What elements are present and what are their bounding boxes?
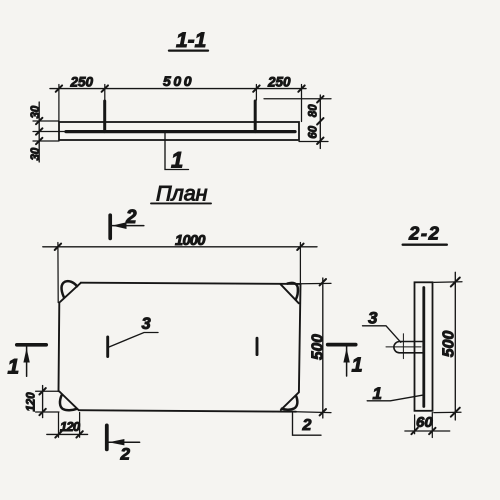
section mark 2 (bottom) [107, 425, 140, 463]
tick [36, 138, 42, 144]
horizontal dim 120 (bottom-left) [58, 413, 60, 437]
extension right to 500 dim (bottom) [296, 411, 331, 414]
chamfer top-right [281, 284, 299, 303]
tick [253, 85, 259, 91]
svg-text:1000: 1000 [175, 233, 205, 249]
extension lines [58, 85, 60, 122]
dimension line 500 (section 2-2) [454, 272, 456, 420]
anchor bar left (section 1-1) [103, 101, 106, 132]
steel strip 1 (section 1-1) [66, 130, 295, 133]
extension lines up from plan [57, 243, 59, 303]
svg-text:2: 2 [120, 445, 131, 464]
leader to strip 1 [165, 133, 189, 170]
svg-text:1-1: 1-1 [176, 29, 206, 52]
plan top edge [81, 283, 301, 284]
extension top [434, 281, 462, 284]
svg-text:3: 3 [142, 315, 151, 333]
left vertical dim line 30/30 [38, 102, 40, 162]
anchor bar right (section 1-1) [254, 101, 257, 132]
chamfer bottom-right [281, 392, 299, 410]
svg-text:1: 1 [373, 384, 382, 403]
extension bottom [434, 411, 461, 413]
tick [429, 428, 435, 434]
plan right edge [299, 284, 301, 392]
svg-text:1: 1 [171, 148, 183, 173]
tick [297, 244, 303, 250]
tick [56, 85, 62, 91]
leader to strip 1 (2-2) [367, 395, 422, 401]
svg-text:30: 30 [30, 147, 42, 160]
dimension 60 (section 2-2) [414, 415, 416, 434]
chamfer bottom-left [59, 392, 78, 411]
section mark 1 (right) [328, 345, 363, 377]
svg-text:2: 2 [125, 207, 137, 228]
lifting loop bottom-right [282, 396, 298, 410]
tick [320, 279, 326, 285]
tick [317, 96, 323, 102]
lifting loop top-right [288, 283, 298, 300]
svg-text:1: 1 [8, 356, 20, 379]
plate outline (section 2-2) [415, 282, 433, 411]
leader to anchor 3 (2-2) [363, 326, 401, 343]
tick [317, 138, 323, 144]
section title 1-1 [169, 29, 208, 52]
tick [55, 431, 61, 437]
extension right to 500 dim [301, 282, 332, 284]
tick [102, 85, 108, 91]
section trace 2 (bottom-right) [293, 413, 322, 435]
tick [55, 244, 61, 250]
chamfer top-left [60, 283, 81, 302]
svg-text:1: 1 [352, 355, 363, 377]
tick [320, 409, 326, 415]
lifting loop top-left [62, 281, 77, 297]
section mark 1 (left) [8, 345, 47, 379]
centerline horizontal [386, 346, 421, 348]
svg-text:500: 500 [440, 331, 457, 358]
plate outline (section 1-1) [59, 122, 299, 140]
svg-text:120: 120 [26, 392, 38, 412]
right vertical dim line 80/60 [319, 95, 321, 149]
plan bottom edge [79, 410, 296, 412]
svg-text:3: 3 [368, 309, 378, 328]
svg-text:250: 250 [267, 75, 291, 90]
vertical dim 120 (bottom-left) [36, 390, 59, 392]
centerline vertical [402, 334, 404, 359]
tick [39, 409, 45, 415]
plan title [151, 181, 211, 205]
dimension line 500 (plan right) [322, 278, 324, 418]
extension to plate bottom [299, 141, 328, 143]
anchor right (plan) [256, 338, 259, 354]
anchor stub 3 (section 2-2) [394, 342, 424, 353]
anchor 3 left (plan) [106, 337, 109, 357]
section mark 2 (top) [110, 207, 144, 238]
tick [411, 428, 417, 434]
steel strip 1 (section 2-2) [422, 288, 425, 407]
dimension line 1000 (plan) [43, 246, 317, 248]
tick [317, 118, 323, 124]
svg-text:80: 80 [307, 104, 319, 117]
svg-text:500: 500 [309, 334, 326, 360]
svg-text:План: План [156, 181, 208, 205]
tick [451, 278, 460, 287]
tick [36, 118, 42, 124]
tick [39, 388, 45, 394]
svg-text:500: 500 [163, 73, 194, 89]
tick [298, 85, 304, 91]
plan left edge [58, 303, 61, 392]
svg-text:30: 30 [30, 105, 42, 118]
svg-text:60: 60 [307, 125, 319, 138]
extension line at anchor top (right) [264, 98, 331, 100]
lifting loop bottom-left [60, 395, 76, 410]
svg-text:120: 120 [60, 419, 81, 434]
svg-text:60: 60 [416, 414, 433, 431]
tick [36, 128, 42, 134]
section title 2-2 [403, 222, 447, 244]
extension lines left [33, 120, 59, 122]
tick [451, 408, 460, 417]
svg-text:2-2: 2-2 [408, 222, 441, 243]
tick [76, 431, 82, 437]
dimension line 250/500/250 (section 1-1) [50, 88, 306, 90]
svg-text:250: 250 [70, 75, 94, 90]
leader to anchor 3 [109, 333, 158, 348]
svg-text:2: 2 [302, 417, 312, 434]
